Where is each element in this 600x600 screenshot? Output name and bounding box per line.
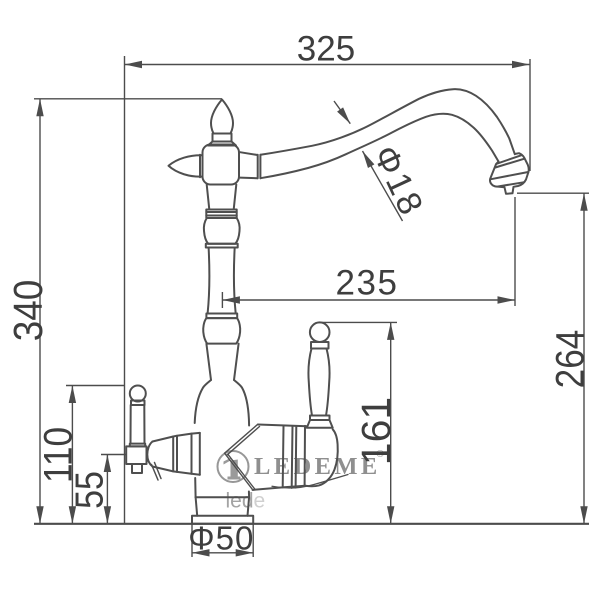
- left lever pivot block: [126, 446, 146, 464]
- aerator band 4 (cap bottom): [498, 182, 524, 186]
- extension line flange right: [252, 524, 254, 557]
- svg-text:Φ50: Φ50: [188, 519, 254, 556]
- right handle ball: [310, 322, 330, 342]
- base flange: [192, 516, 253, 524]
- extension line left vertical x124: [124, 56, 126, 524]
- right valve band 1: [282, 426, 285, 487]
- lower body left edge (above valve): [195, 380, 211, 423]
- leader phi18 lower: [363, 151, 403, 221]
- left valve band 2: [176, 436, 178, 472]
- finial collar: [213, 134, 232, 142]
- svg-text:Φ18: Φ18: [365, 140, 430, 223]
- extension line handle top y322.4: [318, 321, 397, 323]
- right valve band 4: [304, 426, 306, 486]
- dimension line 340: [39, 99, 41, 524]
- aerator band 3: [490, 172, 528, 179]
- left valve cap line 1: [191, 434, 193, 474]
- leader phi18 upper: [334, 101, 350, 124]
- svg-text:161: 161: [353, 397, 399, 465]
- left lever shaft flare line: [130, 444, 145, 447]
- left bud collar: [199, 155, 201, 177]
- column neck under body: [207, 185, 237, 210]
- extension line right vertical x530 (spout right): [529, 59, 531, 171]
- extension line outlet level y193: [517, 192, 589, 194]
- svg-text:340: 340: [6, 280, 51, 342]
- extension line lever pivot y454.5: [101, 454, 126, 456]
- dimension line phi50: [192, 552, 253, 554]
- svg-text:235: 235: [336, 264, 399, 303]
- right valve dome: [305, 429, 337, 486]
- spout inner edge: [261, 114, 499, 179]
- body base separation line: [196, 496, 250, 498]
- dimension line 264: [583, 193, 585, 524]
- left valve band 1: [172, 437, 174, 472]
- aerator: [490, 153, 529, 194]
- svg-text:325: 325: [297, 29, 355, 68]
- left lever shaft: [131, 405, 145, 444]
- svg-text:264: 264: [547, 330, 592, 389]
- watermark logo circle: [218, 451, 249, 482]
- dimension line 55: [106, 455, 108, 524]
- right valve band 3: [295, 426, 298, 488]
- left valve nose face: [147, 442, 152, 467]
- lower body right edge (below valve): [248, 492, 250, 498]
- knob B: [203, 318, 240, 344]
- left lever ball: [130, 386, 146, 402]
- ground line: [34, 523, 589, 525]
- right handle lower collar: [310, 416, 330, 421]
- swoosh under right valve: [272, 475, 348, 489]
- lower body left edge (below valve): [194, 478, 196, 497]
- base cone: [196, 497, 250, 516]
- ring set A: [206, 210, 236, 219]
- extension line top (finial level): [34, 98, 222, 100]
- dimension line 235: [222, 299, 515, 301]
- right handle skirt: [307, 420, 333, 428]
- left lever collar: [131, 401, 145, 406]
- lower body right edge (above valve): [234, 380, 249, 426]
- aerator band 2: [495, 159, 524, 168]
- right valve band 2: [291, 426, 294, 488]
- right valve top edge: [258, 425, 307, 427]
- left valve chevron ticks: [152, 463, 162, 481]
- extension line lever top y385.5: [66, 385, 125, 387]
- left valve cone top: [153, 433, 200, 442]
- spout outer edge: [261, 89, 515, 155]
- left valve cap line 2: [199, 433, 201, 475]
- taper neck lower: [206, 344, 238, 380]
- finial base flare: [208, 142, 236, 146]
- finial: [211, 100, 233, 134]
- right handle collar: [311, 342, 329, 349]
- svg-text:lede: lede: [226, 490, 266, 513]
- svg-text:55: 55: [67, 471, 111, 509]
- dimension line 110: [71, 386, 73, 524]
- right valve bottom edge: [253, 486, 306, 490]
- ring B: [206, 314, 237, 319]
- ring A2: [206, 244, 238, 248]
- aerator band 1: [497, 155, 522, 164]
- tick at column centre for 235: [221, 292, 223, 308]
- left bud spray head: [169, 155, 203, 176]
- left lever stub: [132, 464, 142, 473]
- right handle shaft: [308, 349, 329, 416]
- stem: [208, 248, 236, 314]
- extension line outlet vertical x515: [514, 197, 516, 306]
- right valve nose chevron lower: [225, 453, 256, 490]
- right connector collar lines: [257, 155, 259, 178]
- dimension line 161: [390, 322, 392, 523]
- knob A: [204, 218, 240, 244]
- left valve cone bottom: [153, 467, 200, 475]
- right connector: [240, 152, 258, 178]
- watermark logo numeral 1: [224, 458, 241, 480]
- dimension line 325: [125, 64, 530, 66]
- right valve nose chevron upper: [225, 424, 260, 455]
- upper body block: [203, 145, 240, 185]
- extension line flange left: [191, 524, 193, 557]
